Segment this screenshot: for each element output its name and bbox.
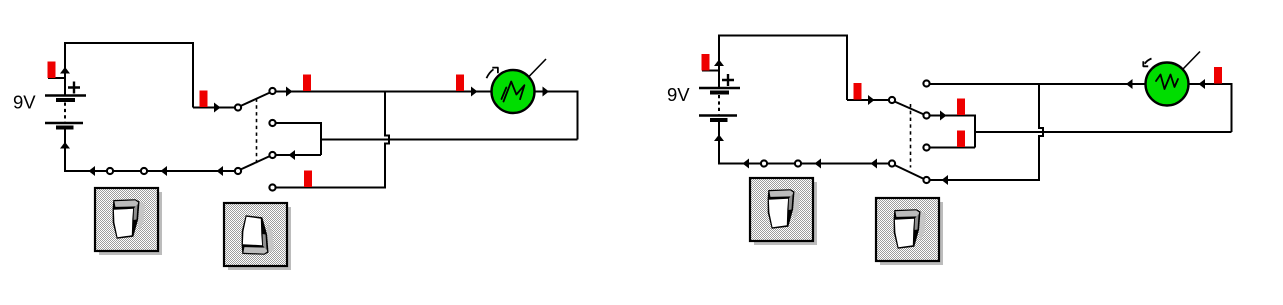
current arrow left on bottom wire 3 (A) bbox=[217, 166, 224, 176]
wire throw1b to vertical (A) bbox=[276, 122, 323, 124]
wire step-down vertical (A) bbox=[192, 43, 194, 108]
wire battery bottom vertical (A) bbox=[64, 130, 66, 173]
rocker switch picture DPDT position up (circuit A) bbox=[224, 203, 291, 270]
switch lever pole1-throw1a (A) bbox=[241, 93, 271, 107]
wire battery top vertical B bbox=[718, 36, 720, 89]
node pole 2 (B) bbox=[889, 160, 895, 166]
wire top horizontal (B) bbox=[718, 35, 848, 37]
wire throw1b to vertical (B) bbox=[930, 115, 977, 117]
wire throw1a row to motor (B) bbox=[930, 83, 1147, 85]
current arrow out of motor (A) bbox=[543, 87, 550, 97]
wire battery bottom vertical (B) bbox=[718, 122, 720, 165]
node pole 1 (A) bbox=[235, 104, 241, 110]
motor squiggle M symbol (A) bbox=[502, 82, 525, 102]
wire return horizontal (B) bbox=[975, 131, 1232, 133]
motor diagonal stroke (A) bbox=[529, 59, 546, 77]
wire vertical joining throw1b/throw2a (A) bbox=[320, 123, 322, 155]
motor M (A) body bbox=[492, 70, 535, 113]
rocker switch picture SW1 closed (circuit B) bbox=[750, 178, 817, 245]
switch lever pole2-throw2a (A) bbox=[241, 156, 271, 170]
current arrow left into throw2b (B) bbox=[942, 175, 949, 185]
battery cell 2 long plate A bbox=[45, 122, 83, 124]
wire throw2a to vertical (A) bbox=[276, 154, 322, 156]
wire into pole 1 (B) bbox=[847, 99, 889, 101]
battery plus sign B bbox=[722, 74, 734, 86]
red voltage flag F4 on throw2a wire (B) bbox=[957, 131, 965, 148]
wire motor-side vertical (A) bbox=[577, 92, 579, 140]
battery cell 1 short plate A bbox=[56, 98, 75, 102]
flag stub wire at battery + (B) bbox=[702, 70, 719, 72]
motor M (B) body bbox=[1146, 63, 1189, 106]
node on-off switch terminal 1 (A) bbox=[107, 168, 113, 174]
wire bottom horizontal (B) bbox=[718, 163, 889, 165]
wire throw2b row (B) bbox=[930, 179, 1041, 181]
rocker switch picture SW1 closed (circuit A) bbox=[95, 188, 162, 255]
svg-text:9V: 9V bbox=[667, 84, 690, 105]
red voltage flag F2 after step (B) bbox=[854, 83, 862, 100]
node throw 2b (B) bbox=[923, 177, 929, 183]
wire junction vertical with crossing jog (A) bbox=[385, 92, 389, 188]
motor rotation arrow clockwise (A) bbox=[487, 67, 499, 78]
svg-text:9V: 9V bbox=[13, 92, 36, 113]
battery internal dashed link A bbox=[64, 103, 66, 123]
current arrow left into throw2a (A) bbox=[289, 150, 296, 160]
battery cell 2 long plate B bbox=[699, 114, 737, 116]
wire into pole 1 (A) bbox=[193, 107, 235, 109]
current arrow left on bottom wire 3 (B) bbox=[871, 159, 878, 169]
node throw 1a (B) bbox=[923, 80, 929, 86]
red voltage flag F4 on throw2b wire (A) bbox=[304, 171, 312, 188]
switch lever pole2-throw2b (B) bbox=[895, 165, 925, 179]
wire top horizontal (A) bbox=[64, 42, 194, 44]
rocker switch picture DPDT position down (circuit B) bbox=[876, 198, 943, 265]
node pole 2 (A) bbox=[235, 168, 241, 174]
battery internal dashed link B bbox=[718, 95, 720, 115]
current arrow up into top wire B bbox=[714, 60, 724, 67]
red voltage flag F5 before motor (A) bbox=[456, 75, 464, 92]
current arrow up toward battery - (B) bbox=[714, 135, 724, 142]
switch gang dashed link (A) bbox=[256, 99, 258, 165]
node throw 2b (A) bbox=[269, 184, 275, 190]
red voltage flag F3 on throw1b wire (B) bbox=[957, 99, 965, 116]
current arrow into motor (A) bbox=[471, 87, 478, 97]
wire throw2b row (A) bbox=[276, 187, 387, 189]
node on-off switch terminal 1 (B) bbox=[761, 160, 767, 166]
current arrow up toward battery - (A) bbox=[60, 142, 70, 149]
battery cell 2 short plate A bbox=[56, 126, 74, 130]
wire motor right (B) bbox=[1188, 83, 1233, 85]
wire throw1a row to motor (A) bbox=[276, 91, 493, 93]
wire motor right (A) bbox=[534, 91, 579, 93]
red voltage flag F5 after motor (B) bbox=[1214, 67, 1222, 84]
node throw 1b (B) bbox=[923, 112, 929, 118]
motor rotation arrow counter-clockwise (B) bbox=[1143, 59, 1151, 67]
current arrow left on bottom wire 2 (A) bbox=[161, 166, 168, 176]
node on-off switch terminal 2 (B) bbox=[795, 160, 801, 166]
red voltage flag F1 at battery + (A) bbox=[48, 62, 56, 79]
red voltage flag F3 on throw1a wire (A) bbox=[303, 75, 311, 92]
red voltage flag F2 after step (A) bbox=[200, 91, 208, 108]
node throw 1a (A) bbox=[269, 88, 275, 94]
wire throw2a to vertical (B) bbox=[930, 147, 976, 149]
current arrow left on bottom wire 1 (B) bbox=[743, 159, 750, 169]
battery cell 1 long plate B bbox=[699, 87, 740, 89]
current arrow right after throw1a (A) bbox=[286, 87, 293, 97]
current arrow up into top wire A bbox=[60, 67, 70, 74]
switch gang dashed link (B) bbox=[910, 104, 912, 168]
current arrow right toward pole 1 (A) bbox=[214, 103, 221, 113]
current arrow into motor from right (B) bbox=[1199, 79, 1206, 89]
wire motor-side vertical (B) bbox=[1231, 84, 1233, 132]
wire bottom horizontal (A) bbox=[64, 170, 235, 172]
node on-off switch terminal 2 (A) bbox=[141, 168, 147, 174]
current arrow left on bottom wire 1 (A) bbox=[89, 166, 96, 176]
battery cell 1 long plate A bbox=[45, 94, 86, 96]
battery cell 1 short plate B bbox=[710, 91, 729, 95]
node throw 2a (B) bbox=[923, 144, 929, 150]
current arrow right toward pole 1 (B) bbox=[868, 95, 875, 105]
wire junction vertical with crossing jog (B) bbox=[1039, 84, 1043, 180]
battery plus sign A bbox=[68, 82, 80, 94]
battery cell 2 short plate B bbox=[710, 118, 728, 122]
current arrow out of motor leftward (B) bbox=[1126, 79, 1133, 89]
wire return horizontal (A) bbox=[321, 139, 578, 141]
wire battery top vertical A bbox=[64, 43, 66, 96]
switch lever pole1-throw1b (B) bbox=[895, 102, 925, 115]
node throw 1b (A) bbox=[269, 120, 275, 126]
flag stub wire at battery + (A) bbox=[48, 77, 65, 79]
motor squiggle M symbol (B) bbox=[1156, 75, 1178, 90]
current arrow left on bottom wire 2 (B) bbox=[815, 159, 822, 169]
red voltage flag F1 at battery + (B) bbox=[702, 54, 710, 71]
wire vertical joining throw1b/throw2a (B) bbox=[974, 116, 976, 148]
wire step-down vertical (B) bbox=[846, 36, 848, 101]
node pole 1 (B) bbox=[889, 97, 895, 103]
motor diagonal stroke (B) bbox=[1183, 52, 1200, 70]
node throw 2a (A) bbox=[269, 152, 275, 158]
current arrow right after throw1b (B) bbox=[940, 111, 947, 121]
